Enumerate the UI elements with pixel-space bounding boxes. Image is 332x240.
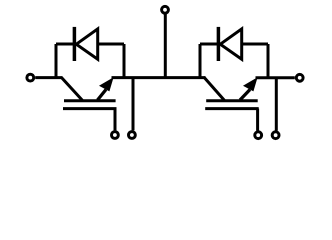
auxiliary emitter terminal E2 [272, 132, 279, 139]
wire: mid bus (T1 emitter / T2 collector) [112, 76, 206, 79]
transistor T2 gate line [205, 107, 259, 110]
diode D1 cathode bar [73, 27, 77, 61]
gate terminal G1 [112, 132, 119, 139]
diode D2 triangle [220, 29, 241, 59]
wire: left terminal to T1 collector [35, 76, 62, 79]
wire: D2 loop right vertical [267, 44, 270, 78]
wire: D2 loop left vertical [199, 44, 202, 78]
wire: D1 loop left vertical [55, 44, 58, 78]
wire: top terminal down to mid bus [164, 14, 167, 77]
auxiliary emitter terminal E1 [129, 132, 136, 139]
transistor T1 emitter arrowhead [99, 77, 114, 91]
wire: T1 gate down to terminal [114, 109, 117, 131]
transistor T2 emitter arrowhead [243, 77, 258, 91]
transistor T1 gate line [63, 107, 117, 110]
wire: T2 gate down to terminal [256, 109, 259, 131]
wire: D1 loop top horizontal [56, 43, 124, 46]
wire: D1 loop right vertical [123, 44, 126, 78]
diode D2 cathode bar [217, 27, 221, 61]
gate terminal G2 [255, 132, 262, 139]
right emitter terminal (pin 3) [296, 74, 303, 81]
transistor T1 collector line [61, 77, 82, 100]
transistor T2 collector line [204, 77, 225, 100]
wire: T2 emitter to right terminal [256, 76, 295, 79]
wire: emitter bus to aux terminal [132, 78, 135, 131]
transistor T1 body bar [64, 99, 116, 102]
top mid terminal (pin 2) [162, 6, 169, 13]
transistor T2 emitter line [240, 90, 250, 101]
left collector terminal (pin 1) [27, 74, 34, 81]
wire: emitter bus to aux terminal 2 [275, 78, 278, 131]
transistor T2 body bar [206, 99, 258, 102]
transistor T1 emitter line [98, 90, 107, 101]
diode D1 triangle [76, 29, 97, 59]
wire: D2 loop top horizontal [200, 43, 268, 46]
